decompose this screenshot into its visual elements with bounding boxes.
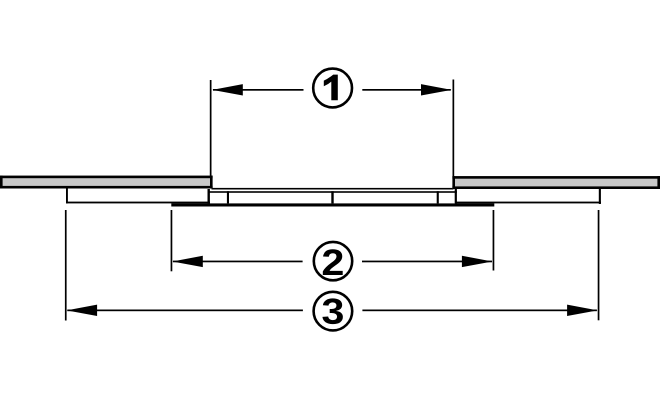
- divider right outer: [455, 189, 457, 203]
- dim3 line left segment: [67, 310, 303, 312]
- divider right inner: [437, 191, 439, 203]
- divider center: [331, 191, 333, 203]
- dim2 line left segment: [173, 261, 303, 263]
- left slat left edge: [66, 188, 68, 203]
- dim2 line right segment: [362, 261, 492, 263]
- dim2 arrow right: [462, 256, 493, 267]
- extension line dim3 right: [598, 210, 600, 320]
- divider left outer: [208, 189, 210, 203]
- dim3 label digit 3: [322, 298, 342, 324]
- extension line dim2 left: [171, 210, 173, 271]
- dim1 arrow left: [212, 84, 243, 95]
- dim1 line right segment: [362, 89, 451, 91]
- dim3 line right segment: [362, 310, 597, 312]
- right slat bottom line: [455, 202, 601, 204]
- dim2 circle: [314, 242, 352, 280]
- dim1 circle: [313, 69, 352, 108]
- extension line dim1 right: [453, 80, 455, 177]
- bottom thick rail: [171, 203, 494, 206]
- dim3 arrow left: [67, 305, 98, 316]
- dim1 arrow right: [421, 84, 452, 95]
- dim1 line left segment: [213, 89, 304, 91]
- dim2 arrow left: [172, 256, 203, 267]
- dim3 arrow right: [567, 305, 598, 316]
- dim2 label digit 2: [323, 249, 343, 275]
- extension line dim3 left: [65, 210, 67, 321]
- left top board: [0, 176, 213, 189]
- right top board: [452, 176, 660, 189]
- dim1 label digit 1: [324, 75, 338, 101]
- right slat right edge: [599, 189, 601, 204]
- left slat bottom line: [66, 202, 210, 204]
- extension line dim2 right: [493, 210, 495, 271]
- divider left inner: [227, 191, 229, 203]
- extension line dim1 left: [210, 80, 212, 176]
- dim3 circle: [314, 292, 353, 331]
- cover strip (center thin profile): [208, 188, 457, 193]
